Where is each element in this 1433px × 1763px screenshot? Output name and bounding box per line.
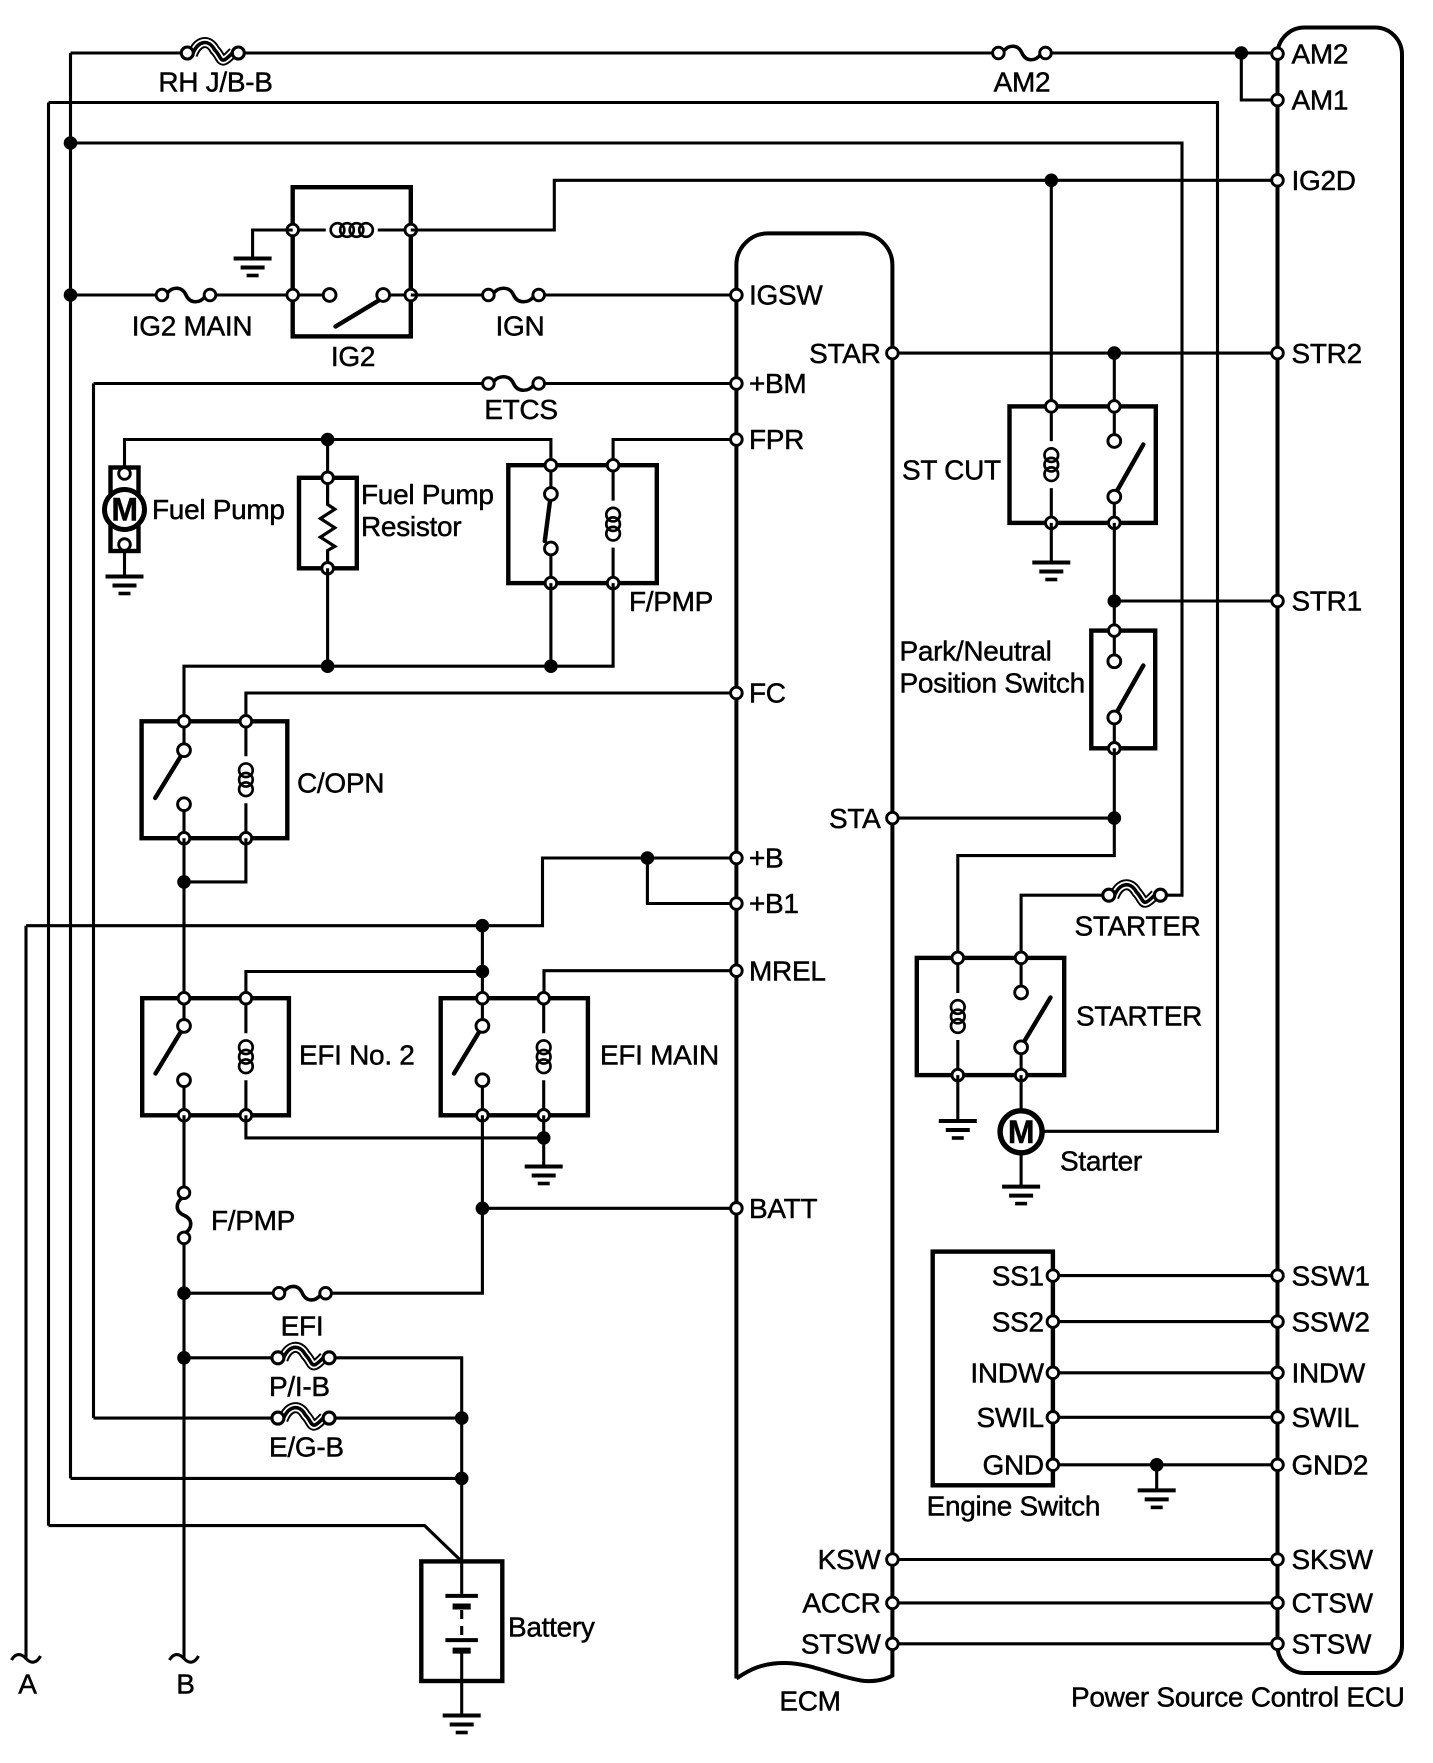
label IG2: [331, 341, 375, 372]
ground starter motor: [1002, 1187, 1040, 1204]
junction dot fuel pump resistor top: [321, 433, 335, 447]
wire E/G-B feed from rail: [94, 1417, 272, 1420]
junction dot STR1 node: [1108, 594, 1122, 608]
wire EFI MAIN switch to BATT pin and EFI fuse: [332, 1115, 737, 1293]
svg-text:SSW1: SSW1: [1292, 1260, 1370, 1291]
fusible link E/G-B: [272, 1408, 335, 1426]
label AM2 fuse: [994, 67, 1051, 98]
junction dot EFI No. 2 coil tap: [476, 965, 490, 979]
wire engine switch ground stem: [1155, 1465, 1158, 1490]
svg-text:CTSW: CTSW: [1292, 1588, 1374, 1619]
label ETCS: [484, 394, 557, 425]
label IG2D (ECU): [1292, 165, 1356, 196]
svg-text:+B: +B: [749, 843, 783, 874]
relay IG2 switch: [287, 289, 417, 327]
pin STSW (ECU): [1272, 1638, 1284, 1650]
wire battery feed to RH J/B-B and AM2 fuse (top rail): [71, 51, 1278, 54]
park/neutral position switch box: [1091, 631, 1155, 749]
svg-text:FPR: FPR: [749, 424, 804, 455]
relay F/PMP switch: [545, 459, 558, 588]
svg-text:SS1: SS1: [992, 1260, 1044, 1291]
wire IG2 switch to IGN fuse: [411, 293, 483, 296]
relay STARTER switch: [1015, 952, 1051, 1081]
wire STARTER coil to ground: [956, 1075, 959, 1120]
svg-text:Power Source Control ECU: Power Source Control ECU: [1071, 1681, 1405, 1712]
wire KSW to SKSW: [892, 1558, 1277, 1561]
wire SS1 to SSW1: [1053, 1274, 1278, 1277]
label Battery: [508, 1612, 595, 1643]
label INDW (engine switch): [970, 1358, 1044, 1389]
wire EFI No. 2 coil feed: [246, 972, 483, 999]
junction dot engine switch ground: [1150, 1458, 1164, 1472]
wire F/PMP switch bottom lead: [549, 583, 552, 666]
ground ST CUT: [1032, 563, 1070, 580]
svg-text:SWIL: SWIL: [977, 1402, 1044, 1433]
wire ST CUT coil to ground: [1050, 523, 1053, 562]
svg-text:AM2: AM2: [994, 67, 1051, 98]
label STSW (ECU): [1292, 1629, 1373, 1660]
svg-text:SS2: SS2: [992, 1306, 1044, 1337]
label SS1: [992, 1260, 1044, 1291]
pin FC (ECM): [731, 687, 743, 699]
label ST CUT: [902, 455, 1001, 486]
wire IG2 MAIN fuse to IG2 relay: [216, 293, 293, 296]
svg-text:EFI: EFI: [281, 1311, 324, 1342]
label SWIL (ECU): [1292, 1402, 1359, 1433]
wire EFI No. 2 switch to F/PMP fuse: [182, 1115, 185, 1187]
fuse ETCS: [483, 377, 545, 391]
junction dot P/I-B tap: [177, 1351, 191, 1365]
label FPR (ECM): [749, 424, 804, 455]
relay EFI MAIN coil: [537, 992, 551, 1121]
relay EFI No. 2 box: [142, 998, 289, 1115]
junction dot on left rail for STARTER fusible link feed: [64, 136, 78, 150]
wire EFI MAIN coil to ground: [542, 1115, 545, 1166]
fusible link P/I-B: [272, 1347, 335, 1365]
pin SWIL (engine switch): [1047, 1412, 1059, 1424]
wire IG2D dot down to ST CUT coil: [1050, 180, 1053, 406]
pin STAR (ECM): [887, 347, 899, 359]
svg-text:E/G-B: E/G-B: [269, 1431, 344, 1462]
label CTSW (ECU): [1292, 1588, 1374, 1619]
wire +B1 tap to pin: [647, 858, 736, 904]
svg-text:ETCS: ETCS: [484, 394, 557, 425]
wire park/neutral switch to STARTER relay coil: [958, 748, 1115, 958]
wire GND to GND2: [1053, 1463, 1278, 1466]
label AM2 (ECU): [1292, 38, 1349, 69]
svg-text:SKSW: SKSW: [1292, 1544, 1374, 1575]
fuse EFI: [273, 1286, 331, 1300]
fuse AM2: [993, 46, 1052, 60]
battery positive lead: [460, 1561, 463, 1594]
pin CTSW (ECU): [1272, 1597, 1284, 1609]
wire STR1 node to STR1 pin: [1114, 599, 1277, 602]
ECM box (rounded, torn bottom edge): [736, 233, 892, 1681]
label EFI No. 2: [299, 1040, 415, 1071]
label +B1 (ECM): [749, 888, 799, 919]
engine switch box: [933, 1252, 1053, 1486]
junction dot +B1 tap: [641, 851, 655, 865]
junction dot STR2 to ST CUT switch: [1108, 346, 1122, 360]
svg-text:ECM: ECM: [779, 1686, 840, 1717]
label STARTER fusible link: [1075, 910, 1201, 941]
svg-text:SSW2: SSW2: [1292, 1306, 1370, 1337]
svg-text:Park/Neutral: Park/Neutral: [900, 636, 1052, 667]
svg-text:B: B: [176, 1668, 194, 1699]
svg-text:Battery: Battery: [508, 1612, 595, 1643]
wire F/PMP fuse to junction: [182, 1244, 185, 1294]
svg-text:Position Switch: Position Switch: [900, 668, 1085, 699]
svg-text:FC: FC: [749, 678, 786, 709]
pin AM1 (ECU): [1272, 94, 1284, 106]
pin SKSW (ECU): [1272, 1554, 1284, 1566]
relay EFI No. 2 switch: [156, 992, 191, 1121]
wire E/G-B to battery node: [335, 1417, 462, 1420]
resistor element: [320, 472, 334, 574]
svg-text:Engine Switch: Engine Switch: [927, 1491, 1101, 1522]
label Park/Neutral Position Switch: [900, 636, 1085, 699]
wire ST CUT switch to park/neutral switch: [1113, 523, 1116, 631]
wire resistor top lead: [326, 440, 329, 478]
pin +BM (ECM): [731, 378, 743, 390]
junction dot F/PMP switch bottom: [544, 659, 558, 673]
pin SSW2 (ECU): [1272, 1316, 1284, 1328]
pin MREL (ECM): [731, 965, 743, 977]
pin STA (ECM): [887, 812, 899, 824]
motor fuel pump: [105, 468, 145, 577]
pin +B1 (ECM): [731, 898, 743, 910]
wire B rail to P/I-B fusible link: [184, 1356, 272, 1359]
svg-text:STR2: STR2: [1292, 338, 1362, 369]
label +B (ECM): [749, 843, 783, 874]
svg-text:STAR: STAR: [809, 338, 880, 369]
svg-text:F/PMP: F/PMP: [211, 1205, 295, 1236]
label Starter: [1060, 1146, 1142, 1177]
resistor fuel pump resistor box: [299, 478, 357, 569]
wire starter rail to battery diagonal: [49, 1526, 462, 1562]
svg-text:ST CUT: ST CUT: [902, 455, 1001, 486]
label SSW1 (ECU): [1292, 1260, 1370, 1291]
wire C/OPN bottoms joined: [184, 838, 246, 882]
battery box: [421, 1561, 502, 1681]
svg-text:EFI MAIN: EFI MAIN: [600, 1040, 719, 1071]
junction dot main rail battery node: [455, 1472, 469, 1486]
svg-text:A: A: [18, 1668, 37, 1699]
label ECM: [779, 1686, 840, 1717]
junction dot EFI fuse node: [177, 1286, 191, 1300]
junction dot IG2 MAIN feed: [64, 288, 78, 302]
ground EFI relays: [525, 1167, 563, 1184]
wire to IG2 MAIN fuse: [71, 293, 157, 296]
relay F/PMP box: [508, 465, 657, 583]
pin INDW (ECU): [1272, 1367, 1284, 1379]
pin ACCR (ECM): [887, 1597, 899, 1609]
svg-text:SWIL: SWIL: [1292, 1402, 1359, 1433]
label E/G-B: [269, 1431, 344, 1462]
svg-text:AM1: AM1: [1292, 85, 1349, 116]
wire EFI fuse to B rail: [184, 1292, 273, 1295]
label IGSW (ECM): [749, 280, 823, 311]
label STA (ECM): [829, 803, 881, 834]
pin IG2D (ECU): [1272, 175, 1284, 187]
svg-text:INDW: INDW: [1292, 1358, 1366, 1389]
svg-text:Starter: Starter: [1060, 1146, 1142, 1177]
label BATT (ECM): [749, 1193, 817, 1224]
relay IG2 box: [293, 187, 411, 336]
label P/I-B: [269, 1371, 330, 1402]
svg-text:STA: STA: [829, 803, 881, 834]
fusible link RH J/B-B: [181, 43, 244, 61]
ground engine switch: [1138, 1490, 1176, 1507]
wire IGN fuse to IGSW pin: [545, 293, 737, 296]
wire FC pin to C/OPN coil: [246, 693, 737, 721]
relay EFI MAIN switch: [454, 992, 489, 1121]
wire +B net down to EFI MAIN switch: [481, 926, 484, 999]
wire fuel pump bus: [184, 583, 613, 721]
svg-text:GND2: GND2: [1292, 1450, 1369, 1481]
break symbol B: [170, 1655, 199, 1663]
wire C/OPN output down to EFI No. 2 switch: [182, 838, 185, 998]
wire rail to battery via diagonal (vertical x=48.5): [47, 103, 50, 1526]
label SWIL (engine switch): [977, 1402, 1044, 1433]
wire FPR node to fuel pump and F/PMP relay switch: [125, 440, 551, 468]
svg-text:P/I-B: P/I-B: [269, 1371, 330, 1402]
wire EFI coil grounds joined: [246, 1115, 544, 1138]
junction dot C/OPN output: [177, 875, 191, 889]
svg-text:ACCR: ACCR: [802, 1588, 880, 1619]
wire ETCS fuse to +BM pin: [545, 382, 737, 385]
label KSW (ECM): [818, 1544, 882, 1575]
ground IG2 coil: [234, 259, 272, 276]
Power Source Control ECU box: [1278, 28, 1403, 1674]
wire ETCS/E-G-B rail (vertical x=93.5): [92, 384, 95, 1419]
svg-text:Fuel Pump: Fuel Pump: [152, 494, 285, 525]
svg-text:AM2: AM2: [1292, 38, 1349, 69]
wire feed to STARTER fusible link: [71, 143, 1183, 895]
relay C/OPN switch: [155, 716, 190, 845]
label IGN: [496, 310, 545, 341]
wire P/I-B to battery node: [335, 1358, 462, 1562]
relay C/OPN coil: [239, 716, 253, 845]
battery cell symbol: [445, 1596, 478, 1716]
relay C/OPN box: [142, 721, 288, 838]
svg-text:IG2: IG2: [331, 341, 375, 372]
svg-text:M: M: [1008, 1114, 1034, 1150]
junction dot resistor bottom: [321, 659, 335, 673]
label RH J/B-B: [158, 67, 272, 98]
svg-text:STSW: STSW: [1292, 1629, 1373, 1660]
svg-text:M: M: [111, 492, 137, 528]
label GND2 (ECU): [1292, 1450, 1369, 1481]
wire ACCR to CTSW: [892, 1601, 1277, 1604]
motor starter: [1000, 1111, 1042, 1186]
junction dot STA node: [1108, 811, 1122, 825]
label F/PMP relay: [629, 586, 713, 617]
label STR1 (ECU): [1292, 586, 1362, 617]
wire main rail to battery node: [71, 1477, 462, 1480]
wire main battery rail (vertical x=70.5): [69, 53, 72, 1478]
wire ETCS feed from left rail: [94, 382, 483, 385]
wire resistor bottom lead: [326, 568, 329, 666]
wire SS2 to SSW2: [1053, 1320, 1278, 1323]
label SSW2 (ECU): [1292, 1306, 1370, 1337]
junction dot AM2 node: [1235, 46, 1249, 60]
relay EFI MAIN box: [441, 998, 588, 1115]
svg-text:STR1: STR1: [1292, 586, 1362, 617]
label STR2 (ECU): [1292, 338, 1362, 369]
wire STR2 dot to ST CUT switch: [1113, 353, 1116, 406]
wire IG2 coil to ground: [253, 230, 293, 259]
relay EFI No. 2 coil: [239, 992, 253, 1121]
label F/PMP fuse: [211, 1205, 295, 1236]
pin STR2 (ECU): [1272, 347, 1284, 359]
svg-text:MREL: MREL: [749, 955, 826, 986]
svg-text:IG2 MAIN: IG2 MAIN: [132, 310, 253, 341]
ground STARTER relay coil: [939, 1121, 977, 1138]
label INDW (ECU): [1292, 1358, 1366, 1389]
wire SWIL to SWIL: [1053, 1416, 1278, 1419]
label EFI MAIN: [600, 1040, 719, 1071]
pin GND (engine switch): [1047, 1459, 1059, 1471]
wire IG2 coil to IG2D pin: [411, 180, 1278, 230]
svg-text:IGN: IGN: [496, 310, 545, 341]
label Engine Switch: [927, 1491, 1101, 1522]
label ACCR (ECM): [802, 1588, 880, 1619]
wire STARTER fusible link to relay switch: [1021, 895, 1103, 958]
svg-text:KSW: KSW: [818, 1544, 882, 1575]
pin +B (ECM): [731, 852, 743, 864]
label STARTER relay: [1076, 1001, 1202, 1032]
pin BATT (ECM): [731, 1203, 743, 1215]
relay ST CUT switch: [1108, 401, 1143, 529]
relay ST CUT coil: [1045, 401, 1059, 529]
wire rail B (vertical): [182, 1293, 185, 1659]
pin SS1: [1047, 1270, 1059, 1282]
fusible link STARTER: [1103, 885, 1167, 903]
svg-text:+BM: +BM: [749, 368, 806, 399]
relay F/PMP coil: [606, 459, 620, 588]
junction dot BATT node: [476, 1202, 490, 1216]
label B: [176, 1668, 194, 1699]
pin SS2: [1047, 1316, 1059, 1328]
wire rail A (vertical): [24, 926, 27, 1660]
svg-text:INDW: INDW: [970, 1358, 1044, 1389]
pin GND2 (ECU): [1272, 1459, 1284, 1471]
junction dot IG2D to ST CUT coil: [1045, 174, 1059, 188]
park/neutral position switch contacts: [1108, 625, 1143, 754]
wire +B net from rail A: [26, 858, 736, 926]
label Fuel Pump (motor): [152, 494, 285, 525]
wire AM2 dot to AM1 pin: [1241, 53, 1271, 100]
svg-text:BATT: BATT: [749, 1193, 817, 1224]
label C/OPN: [297, 768, 384, 799]
pin STSW (ECM): [887, 1638, 899, 1650]
svg-text:STSW: STSW: [801, 1629, 882, 1660]
fuse F/PMP (vertical): [177, 1187, 191, 1244]
svg-text:+B1: +B1: [749, 888, 799, 919]
label A: [18, 1668, 37, 1699]
label Fuel Pump Resistor: [361, 479, 494, 542]
relay STARTER coil: [951, 952, 965, 1081]
svg-text:F/PMP: F/PMP: [629, 586, 713, 617]
pin SWIL (ECU): [1272, 1412, 1284, 1424]
svg-text:STARTER: STARTER: [1076, 1001, 1202, 1032]
pin KSW (ECM): [887, 1554, 899, 1566]
wire STA pin to STA node: [892, 817, 1114, 820]
wire STARTER switch to starter motor: [1020, 1075, 1023, 1110]
svg-text:STARTER: STARTER: [1075, 910, 1201, 941]
ground fuel pump: [106, 577, 144, 594]
label EFI fuse: [281, 1311, 324, 1342]
label AM1 (ECU): [1292, 85, 1349, 116]
wire FPR pin to F/PMP relay coil: [613, 440, 736, 466]
fuse IGN: [483, 288, 545, 302]
svg-text:IG2D: IG2D: [1292, 165, 1356, 196]
relay ST CUT box: [1010, 406, 1156, 523]
label STAR (ECM): [809, 338, 880, 369]
svg-text:EFI No. 2: EFI No. 2: [299, 1040, 415, 1071]
label MREL (ECM): [749, 955, 826, 986]
svg-text:IGSW: IGSW: [749, 280, 823, 311]
svg-text:GND: GND: [982, 1450, 1043, 1481]
junction dot EFI MAIN coil ground: [537, 1131, 551, 1145]
label SKSW (ECU): [1292, 1544, 1374, 1575]
label Power Source Control ECU: [1071, 1681, 1405, 1712]
label IG2 MAIN: [132, 310, 253, 341]
fuse IG2 MAIN: [156, 288, 216, 302]
pin SSW1 (ECU): [1272, 1270, 1284, 1282]
svg-text:RH J/B-B: RH J/B-B: [158, 67, 272, 98]
junction dot E/G-B battery node: [455, 1411, 469, 1425]
wire INDW to INDW: [1053, 1371, 1278, 1374]
pin IGSW (ECM): [731, 289, 743, 301]
label STSW (ECM): [801, 1629, 882, 1660]
label SS2: [992, 1306, 1044, 1337]
break symbol A: [12, 1655, 41, 1663]
junction dot +B net to EFI MAIN switch: [476, 919, 490, 933]
pin INDW (engine switch): [1047, 1367, 1059, 1379]
svg-text:C/OPN: C/OPN: [297, 768, 384, 799]
label GND (engine switch): [982, 1450, 1043, 1481]
svg-text:Fuel Pump: Fuel Pump: [361, 479, 494, 510]
wire MREL pin to EFI MAIN coil: [544, 971, 736, 999]
wire STAR pin to STR2 pin: [892, 352, 1277, 355]
label +BM (ECM): [749, 368, 806, 399]
svg-text:Resistor: Resistor: [361, 511, 461, 542]
label FC (ECM): [749, 678, 786, 709]
wire STSW to STSW: [892, 1642, 1277, 1645]
ground battery: [443, 1716, 481, 1733]
relay STARTER box: [917, 958, 1064, 1075]
pin STR1 (ECU): [1272, 595, 1284, 607]
pin FPR (ECM): [731, 434, 743, 446]
pin AM2 (ECU): [1272, 48, 1284, 60]
wire battery positive rail to starter motor: [49, 103, 1218, 1132]
relay IG2 coil: [287, 223, 417, 237]
